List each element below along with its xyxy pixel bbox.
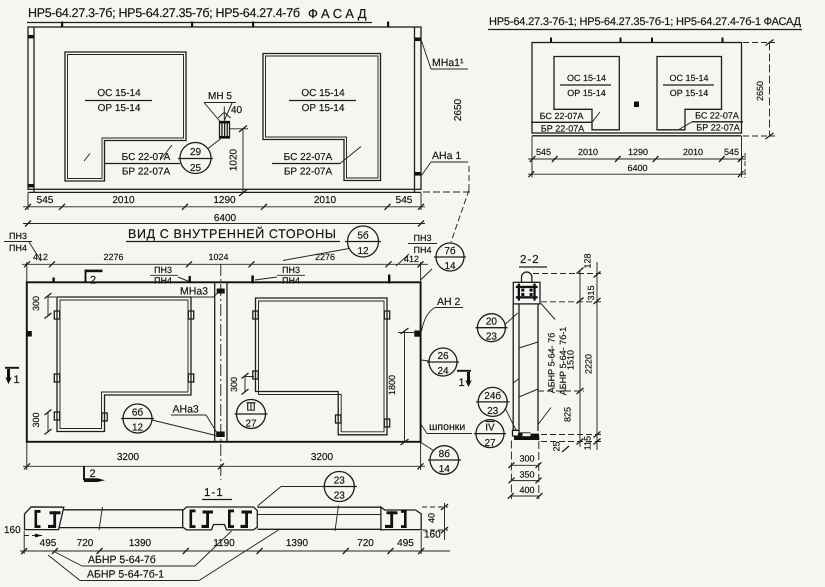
- svg-text:1-1: 1-1: [204, 487, 224, 499]
- frame clips right opening: [253, 311, 390, 427]
- extension lines: [26, 442, 28, 470]
- dim row2 line 6400: [23, 223, 425, 225]
- svg-text:ОС 15-14: ОС 15-14: [97, 88, 141, 99]
- svg-text:ОС 15-14: ОС 15-14: [567, 73, 606, 83]
- top anchor box: [513, 282, 540, 304]
- svg-text:5б: 5б: [357, 231, 369, 242]
- svg-text:IV: IV: [485, 423, 495, 434]
- svg-text:БС 22-07А: БС 22-07А: [122, 152, 171, 163]
- strip span left: bottom line: [59, 527, 183, 529]
- top dim slashes: [24, 261, 424, 267]
- opening left (-1): [554, 57, 619, 130]
- panel 1 bottom second line: [28, 191, 421, 193]
- svg-text:2010: 2010: [314, 195, 337, 206]
- dim row1 extensions: [27, 193, 29, 211]
- svg-text:24б: 24б: [484, 391, 501, 402]
- svg-text:1: 1: [14, 374, 20, 386]
- circle III/27: [237, 400, 266, 429]
- svg-text:495: 495: [397, 538, 414, 549]
- right end block: [381, 507, 421, 530]
- right block profile I: [385, 511, 398, 528]
- section 1-1 dim row: [20, 550, 450, 552]
- svg-text:6400: 6400: [627, 163, 647, 173]
- svg-text:23: 23: [334, 476, 346, 487]
- right rib top mark МНа1: [415, 38, 421, 42]
- circle 7б/14: [436, 243, 464, 271]
- dim 1020 line: [242, 129, 244, 193]
- svg-text:1390: 1390: [129, 538, 152, 549]
- svg-text:БР 22-07А: БР 22-07А: [284, 167, 333, 178]
- opening left outer: [65, 52, 186, 181]
- dim row1 line: [528, 158, 746, 160]
- svg-text:300: 300: [31, 412, 41, 427]
- svg-text:шпонки: шпонки: [429, 421, 465, 433]
- svg-text:НР5-64.27.3-7б-1; НР5-64.27.35: НР5-64.27.3-7б-1; НР5-64.27.35-7б-1; НР5…: [489, 16, 802, 28]
- svg-text:1390: 1390: [286, 538, 309, 549]
- svg-text:2220: 2220: [584, 354, 594, 374]
- svg-text:МН 5: МН 5: [208, 91, 232, 102]
- top dim row line: [22, 263, 428, 265]
- panel 2 bottom second line: [532, 135, 742, 137]
- lifting tick 4: [387, 22, 389, 28]
- svg-text:1290: 1290: [213, 195, 236, 206]
- svg-text:БС 22-07А: БС 22-07А: [284, 152, 333, 163]
- title 2 underline: [488, 29, 802, 31]
- leader plate to circle: [208, 139, 221, 149]
- lifting mark on top edge: [189, 276, 191, 283]
- svg-text:2-2: 2-2: [520, 254, 540, 266]
- svg-text:14: 14: [444, 261, 456, 272]
- МН5 embedded plate hatched: [220, 122, 230, 139]
- panel 1 outline: [28, 27, 421, 189]
- extension dashes: [533, 273, 601, 275]
- svg-text:ОС 15-14: ОС 15-14: [669, 73, 708, 83]
- svg-text:12: 12: [132, 423, 144, 434]
- svg-text:ОР 15-14: ОР 15-14: [567, 88, 606, 98]
- dim 2650 line: [423, 191, 473, 193]
- svg-text:300: 300: [31, 296, 41, 311]
- svg-text:ПН4: ПН4: [282, 276, 300, 286]
- left block profile I: [48, 511, 61, 528]
- lifting tick 2: [620, 38, 622, 43]
- section marker 2 top: [85, 270, 87, 283]
- svg-text:25: 25: [190, 163, 202, 174]
- svg-text:14: 14: [439, 464, 451, 475]
- dashed leader down to circle 7б: [468, 166, 470, 190]
- strip span right: top line: [257, 506, 381, 508]
- svg-text:1290: 1290: [628, 147, 648, 157]
- dim row1 slashes: [25, 204, 424, 210]
- fraction bar left: [85, 100, 152, 102]
- tick at left of bar: [84, 154, 90, 162]
- fraction bar БС left: [104, 163, 180, 165]
- break slash left span: [99, 507, 103, 530]
- svg-text:1: 1: [459, 377, 465, 389]
- svg-text:2650: 2650: [755, 81, 765, 101]
- МНа3 mark: [217, 289, 225, 294]
- svg-text:ФАСАД: ФАСАД: [308, 6, 371, 21]
- extension verticals: [23, 531, 25, 554]
- dim line 128/315/2220/115: [596, 262, 598, 450]
- lifting tick 4: [722, 38, 724, 43]
- dim row2 line 6400: [528, 173, 746, 175]
- svg-text:БР 22-07А: БР 22-07А: [541, 124, 584, 134]
- svg-text:ПН3: ПН3: [154, 265, 172, 275]
- svg-text:АБНР 5-64-7б: АБНР 5-64-7б: [88, 554, 156, 566]
- leader 26 circle: [421, 360, 429, 361]
- break line in body: [519, 389, 538, 397]
- МН5 underline: [204, 102, 236, 104]
- svg-text:2010: 2010: [683, 147, 703, 157]
- svg-text:6400: 6400: [214, 213, 237, 224]
- right dim witness: [444, 503, 446, 540]
- divider centerline: [220, 264, 222, 480]
- svg-text:БР 22-07А: БР 22-07А: [122, 167, 171, 178]
- left end block: [25, 507, 64, 530]
- svg-text:3200: 3200: [117, 452, 140, 463]
- svg-text:29: 29: [190, 147, 202, 158]
- panel 1 right end rib: [414, 27, 416, 192]
- svg-text:1190: 1190: [213, 538, 235, 549]
- lifting mark right: [388, 275, 390, 284]
- section marker 1 left: [5, 367, 19, 369]
- left block profile C: [35, 510, 41, 528]
- leader 23 circle to section: [281, 486, 324, 488]
- svg-text:ПН3: ПН3: [414, 233, 432, 243]
- svg-text:МНа3: МНа3: [180, 286, 208, 298]
- title 1 underline: [27, 22, 372, 24]
- circle 26/24: [429, 348, 457, 376]
- svg-text:12: 12: [357, 246, 369, 257]
- svg-text:МНа1¹: МНа1¹: [432, 57, 464, 69]
- svg-text:40: 40: [427, 513, 437, 523]
- svg-text:7б: 7б: [444, 246, 456, 257]
- opening right (-1): [657, 57, 722, 130]
- svg-text:6б: 6б: [132, 408, 144, 419]
- key mark right edge: [414, 331, 420, 337]
- center divider: [214, 282, 216, 442]
- svg-text:ОР 15-14: ОР 15-14: [98, 103, 141, 114]
- section marker 2 bottom: [83, 467, 85, 481]
- leader 6б circle to divider: [152, 420, 216, 436]
- svg-text:1800: 1800: [387, 375, 397, 395]
- section marker 1 right: [457, 370, 471, 372]
- svg-text:545: 545: [724, 147, 739, 157]
- svg-text:26: 26: [437, 351, 449, 362]
- svg-text:400: 400: [519, 485, 534, 495]
- svg-text:160: 160: [4, 525, 21, 536]
- svg-text:2: 2: [90, 468, 96, 480]
- dim 1020 slashes: [239, 126, 247, 133]
- svg-text:412: 412: [404, 254, 419, 264]
- opening left inner: [68, 55, 184, 179]
- lifting tick 1: [550, 38, 552, 43]
- middle block profile C2: [228, 510, 234, 529]
- АНа3 mark: [216, 432, 225, 438]
- svg-text:23: 23: [486, 332, 498, 343]
- key mark left edge: [27, 331, 32, 337]
- fraction bar БС right: [272, 163, 340, 165]
- svg-text:3200: 3200: [311, 452, 334, 463]
- svg-text:2650: 2650: [453, 98, 464, 121]
- svg-text:2276: 2276: [103, 252, 123, 262]
- middle block profile I2: [241, 511, 253, 529]
- inner opening right inner frame: [259, 301, 385, 432]
- svg-text:1024: 1024: [208, 252, 228, 262]
- svg-text:25: 25: [552, 441, 562, 451]
- inner opening right outer: [256, 298, 388, 435]
- lifting mark left: [52, 278, 54, 284]
- dim extensions: [531, 136, 533, 178]
- svg-text:ПН4: ПН4: [414, 245, 432, 255]
- circle 8б/14: [430, 446, 459, 475]
- svg-text:АНа 1: АНа 1: [432, 150, 461, 162]
- circle 24б/23: [478, 387, 507, 416]
- leader from 5б circle: [283, 249, 349, 261]
- svg-text:ПН3: ПН3: [9, 231, 27, 241]
- svg-text:545: 545: [37, 195, 54, 206]
- svg-text:Ш: Ш: [246, 403, 255, 414]
- left rib bottom weld mark: [28, 184, 34, 187]
- svg-text:2010: 2010: [578, 147, 598, 157]
- witness verticals: [26, 262, 28, 283]
- svg-text:300: 300: [519, 454, 534, 464]
- left rib top weld mark: [28, 35, 34, 38]
- lifting mark on top edge: [251, 276, 254, 284]
- panel 2 outline: [532, 43, 742, 134]
- inner view panel outline: [27, 282, 421, 442]
- svg-text:2010: 2010: [112, 195, 135, 206]
- dim 40 witness line: [223, 107, 225, 122]
- frame clips left opening: [54, 311, 193, 421]
- circle 20/23: [477, 314, 505, 342]
- svg-text:8б: 8б: [439, 449, 451, 460]
- dim extension verticals: [510, 441, 512, 500]
- svg-text:315: 315: [586, 285, 596, 300]
- svg-text:ПН3: ПН3: [282, 265, 300, 275]
- leader 8б circle to corner: [421, 443, 434, 451]
- bottom shoe: [513, 430, 520, 436]
- svg-text:24: 24: [437, 366, 449, 377]
- svg-text:825: 825: [563, 407, 573, 422]
- inner opening left inner frame: [60, 300, 188, 429]
- svg-text:495: 495: [40, 538, 57, 549]
- lifting loop: [522, 272, 532, 282]
- svg-text:ОР 15-14: ОР 15-14: [302, 103, 345, 114]
- svg-text:720: 720: [357, 538, 374, 549]
- lifting tick 3: [252, 22, 254, 28]
- svg-text:БС 22-07А: БС 22-07А: [540, 111, 584, 121]
- tick under opening bottom: [161, 145, 172, 159]
- svg-text:АНа3: АНа3: [173, 404, 199, 416]
- anchor channel bars: [516, 286, 538, 288]
- svg-text:300: 300: [229, 377, 239, 392]
- circle 23/23: [324, 472, 354, 502]
- bracket leaders: [541, 304, 555, 320]
- svg-text:128: 128: [583, 253, 593, 268]
- inner opening left outer: [57, 297, 191, 432]
- svg-text:545: 545: [536, 147, 551, 157]
- svg-text:720: 720: [77, 538, 94, 549]
- lifting tick 3: [651, 38, 653, 43]
- svg-text:40: 40: [231, 105, 243, 116]
- opening right inner: [266, 56, 379, 178]
- circle 5б/12: [348, 226, 379, 257]
- svg-text:АН 2: АН 2: [437, 296, 461, 308]
- bottom dim row 3200+3200: [23, 465, 425, 467]
- svg-text:1510: 1510: [566, 350, 576, 370]
- МН5 mark black square: [634, 102, 639, 108]
- svg-text:2276: 2276: [315, 252, 335, 262]
- svg-text:2: 2: [90, 275, 96, 287]
- fraction bar right: [289, 100, 356, 102]
- svg-text:ОС 15-14: ОС 15-14: [301, 88, 345, 99]
- svg-text:23: 23: [487, 406, 499, 417]
- svg-text:БР 22-07А: БР 22-07А: [696, 123, 739, 133]
- circle 29/25: [180, 143, 211, 174]
- svg-text:115: 115: [583, 436, 593, 450]
- strip span right: bottom line: [257, 528, 381, 530]
- svg-text:АБНР 5-64- 7б: АБНР 5-64- 7б: [547, 333, 557, 394]
- circle 6б/12: [123, 404, 152, 433]
- middle block: [183, 507, 258, 530]
- svg-text:ОР 15-14: ОР 15-14: [670, 88, 709, 98]
- svg-text:НР5-64.27.3-7б; НР5-64.27.35-7: НР5-64.27.3-7б; НР5-64.27.35-7б; НР5-64.…: [28, 6, 300, 20]
- dim row1 line: [23, 206, 425, 208]
- svg-text:350: 350: [519, 470, 534, 480]
- svg-text:545: 545: [396, 195, 413, 206]
- lifting tick 2: [191, 22, 193, 28]
- middle block profile C1: [190, 510, 196, 529]
- svg-text:27: 27: [484, 438, 496, 449]
- svg-text:27: 27: [245, 419, 257, 430]
- dim 40 arrows: [218, 113, 224, 119]
- svg-text:23: 23: [334, 491, 346, 502]
- svg-text:160: 160: [424, 530, 441, 541]
- circle IV/27: [476, 420, 504, 448]
- panel 1 left end rib: [33, 27, 35, 192]
- opening right outer: [263, 54, 381, 181]
- strip span left: top line: [64, 509, 183, 511]
- right rib bottom mark АНа1: [415, 172, 421, 176]
- МН5 leader: [204, 103, 221, 123]
- lifting tick 1: [61, 22, 63, 28]
- svg-text:20: 20: [486, 317, 498, 328]
- svg-text:ВИД С ВНУТРЕННЕЙ СТОРОНЫ: ВИД С ВНУТРЕННЕЙ СТОРОНЫ: [128, 226, 338, 241]
- right block profile C: [401, 510, 407, 528]
- middle block profile I1: [202, 511, 214, 529]
- svg-text:1020: 1020: [229, 148, 240, 171]
- dim line 1510/825: [579, 271, 581, 447]
- leader to notch corner: [340, 147, 361, 164]
- break slash right span: [335, 506, 339, 532]
- section body: [512, 304, 514, 431]
- svg-text:ПН4: ПН4: [154, 276, 172, 286]
- svg-text:БС 22-07А: БС 22-07А: [695, 111, 739, 121]
- svg-text:ПН4: ПН4: [9, 243, 27, 253]
- svg-text:АБНР 5-64-7б-1: АБНР 5-64-7б-1: [87, 569, 164, 581]
